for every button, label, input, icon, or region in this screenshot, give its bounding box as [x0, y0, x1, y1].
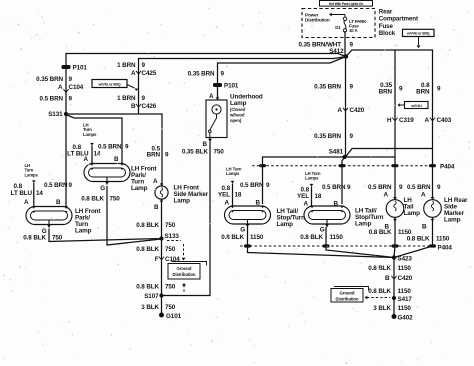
- svg-text:750: 750: [165, 304, 176, 311]
- svg-text:9: 9: [221, 71, 225, 78]
- svg-text:S133: S133: [165, 233, 180, 240]
- svg-text:750: 750: [214, 149, 225, 156]
- svg-text:Lamps: Lamps: [305, 176, 319, 181]
- svg-text:750: 750: [52, 235, 63, 242]
- svg-text:9: 9: [69, 182, 73, 189]
- svg-text:9: 9: [266, 182, 270, 189]
- svg-text:Block: Block: [379, 30, 396, 37]
- svg-text:750: 750: [165, 284, 176, 291]
- svg-text:D1: D1: [335, 25, 341, 30]
- svg-text:B: B: [334, 201, 339, 208]
- svg-text:B: B: [131, 103, 136, 110]
- svg-text:w/V4U or B9Q: w/V4U or B9Q: [406, 32, 430, 36]
- svg-text:9: 9: [142, 62, 146, 69]
- svg-text:A: A: [24, 199, 29, 206]
- svg-text:750: 750: [165, 246, 176, 253]
- svg-text:A: A: [338, 107, 343, 114]
- svg-text:B: B: [256, 200, 261, 207]
- svg-text:open): open): [230, 118, 242, 123]
- svg-text:Lamp: Lamp: [277, 221, 294, 228]
- svg-text:G101: G101: [166, 313, 182, 320]
- svg-text:9: 9: [350, 84, 354, 91]
- svg-text:B: B: [385, 275, 390, 282]
- svg-text:0.8: 0.8: [14, 183, 23, 190]
- svg-text:S423: S423: [398, 256, 413, 263]
- svg-text:Lamp: Lamp: [131, 185, 148, 192]
- svg-text:1150: 1150: [436, 236, 450, 243]
- svg-text:A: A: [209, 93, 214, 100]
- svg-text:1150: 1150: [250, 234, 264, 241]
- svg-text:0.8 BLK: 0.8 BLK: [368, 288, 391, 295]
- svg-text:C319: C319: [399, 117, 414, 124]
- svg-text:P404: P404: [438, 245, 453, 252]
- svg-text:G402: G402: [398, 315, 414, 322]
- svg-text:1 BRN: 1 BRN: [117, 62, 136, 69]
- svg-text:0.5 BRN: 0.5 BRN: [368, 184, 392, 191]
- svg-text:0.8 BLK: 0.8 BLK: [368, 265, 391, 272]
- svg-text:1150: 1150: [398, 288, 412, 295]
- svg-text:A: A: [304, 201, 309, 208]
- svg-text:750: 750: [110, 196, 121, 203]
- svg-text:B: B: [154, 204, 159, 211]
- svg-text:0.5 BRN: 0.5 BRN: [240, 182, 264, 189]
- svg-text:9: 9: [142, 95, 146, 102]
- svg-text:0.5 BRN: 0.5 BRN: [322, 184, 346, 191]
- svg-text:Lamps: Lamps: [83, 132, 97, 137]
- svg-text:Lamp: Lamp: [174, 198, 191, 205]
- svg-text:Hot With Park Lights On: Hot With Park Lights On: [329, 2, 364, 6]
- svg-text:C403: C403: [437, 117, 452, 124]
- svg-text:P404: P404: [440, 164, 455, 171]
- svg-text:Lamps: Lamps: [25, 172, 39, 177]
- svg-text:H: H: [387, 117, 392, 124]
- svg-text:9: 9: [350, 42, 354, 49]
- svg-text:0.8 BLK: 0.8 BLK: [369, 229, 392, 236]
- svg-text:S131: S131: [48, 111, 63, 118]
- svg-text:A: A: [421, 192, 426, 199]
- svg-text:Lamps: Lamps: [226, 171, 240, 176]
- svg-text:0.8 BLK: 0.8 BLK: [221, 234, 244, 241]
- svg-text:1 BRN: 1 BRN: [117, 95, 136, 102]
- svg-text:0.5 BRN: 0.5 BRN: [98, 144, 122, 151]
- svg-text:P101: P101: [73, 65, 88, 72]
- svg-text:Distribution: Distribution: [336, 296, 359, 301]
- svg-text:Lamp: Lamp: [404, 210, 421, 217]
- svg-text:S417: S417: [398, 296, 413, 303]
- svg-text:9: 9: [437, 184, 441, 191]
- svg-text:C420: C420: [350, 107, 365, 114]
- svg-text:B: B: [203, 141, 208, 148]
- svg-text:750: 750: [165, 222, 176, 229]
- svg-text:YEL: YEL: [218, 192, 230, 199]
- svg-text:(Closed: (Closed: [230, 107, 246, 112]
- svg-text:C425: C425: [142, 70, 157, 77]
- svg-text:A: A: [225, 200, 230, 207]
- svg-text:A: A: [425, 117, 430, 124]
- svg-text:LT BLU: LT BLU: [11, 190, 33, 197]
- svg-text:C420: C420: [398, 275, 413, 282]
- svg-text:F: F: [155, 256, 159, 263]
- svg-text:18: 18: [315, 193, 322, 200]
- svg-text:0.8 BLK: 0.8 BLK: [81, 196, 104, 203]
- svg-text:0.5 BRN: 0.5 BRN: [407, 184, 431, 191]
- svg-text:Ground: Ground: [340, 291, 355, 296]
- svg-text:C426: C426: [142, 103, 157, 110]
- svg-text:9: 9: [350, 133, 354, 140]
- svg-text:A: A: [84, 156, 89, 163]
- svg-text:Lamp: Lamp: [355, 221, 372, 228]
- svg-text:9: 9: [437, 86, 441, 93]
- svg-text:BRN: BRN: [379, 89, 393, 96]
- svg-text:G: G: [320, 227, 325, 234]
- svg-text:0.5 BRN: 0.5 BRN: [40, 96, 64, 103]
- svg-text:18: 18: [235, 192, 242, 199]
- svg-text:BRN: BRN: [416, 89, 430, 96]
- svg-text:Rear: Rear: [379, 9, 393, 16]
- svg-text:BRN: BRN: [147, 152, 161, 159]
- svg-text:0.35 BRN: 0.35 BRN: [36, 76, 63, 83]
- svg-text:1150: 1150: [330, 234, 344, 241]
- svg-text:Lamp: Lamp: [230, 100, 247, 107]
- svg-text:G: G: [240, 227, 245, 234]
- svg-text:0.8 BLK: 0.8 BLK: [407, 236, 430, 243]
- svg-text:C104: C104: [69, 84, 84, 91]
- svg-text:Lamp: Lamp: [75, 228, 92, 235]
- svg-text:14: 14: [36, 190, 43, 197]
- svg-text:9: 9: [69, 76, 73, 83]
- svg-text:Fuse: Fuse: [379, 23, 394, 30]
- svg-text:S107: S107: [144, 293, 159, 300]
- svg-text:0.8 BLK: 0.8 BLK: [136, 284, 159, 291]
- svg-text:P101: P101: [224, 83, 239, 90]
- svg-text:Distribution: Distribution: [173, 272, 196, 277]
- svg-text:0.35 BRN: 0.35 BRN: [314, 133, 341, 140]
- svg-text:9: 9: [399, 184, 403, 191]
- svg-text:S412: S412: [329, 48, 344, 55]
- svg-text:10 A: 10 A: [349, 28, 358, 33]
- svg-text:YEL: YEL: [297, 193, 309, 200]
- svg-text:Lamp: Lamp: [444, 217, 461, 224]
- svg-text:0.8 BLK: 0.8 BLK: [300, 234, 323, 241]
- svg-text:0.8 BLK: 0.8 BLK: [23, 235, 46, 242]
- svg-text:w/V4U: w/V4U: [410, 104, 422, 108]
- svg-text:B: B: [56, 199, 61, 206]
- svg-text:A: A: [58, 84, 63, 91]
- svg-text:0.35 BRN: 0.35 BRN: [314, 84, 341, 91]
- svg-text:0.8 BLK: 0.8 BLK: [136, 222, 159, 229]
- svg-text:0.35 BRN: 0.35 BRN: [188, 71, 215, 78]
- svg-text:9: 9: [399, 86, 403, 93]
- svg-text:9: 9: [125, 144, 129, 151]
- svg-text:1150: 1150: [398, 305, 412, 312]
- svg-text:1150: 1150: [398, 265, 412, 272]
- svg-text:0.35 BLK: 0.35 BLK: [182, 149, 209, 156]
- svg-text:S481: S481: [329, 149, 344, 156]
- svg-text:w/V42 or B9Q: w/V42 or B9Q: [98, 83, 121, 87]
- svg-text:A: A: [384, 192, 389, 199]
- svg-text:B: B: [114, 156, 119, 163]
- svg-text:9: 9: [165, 152, 169, 159]
- svg-text:0.8 BLK: 0.8 BLK: [136, 246, 159, 253]
- svg-text:Ground: Ground: [177, 266, 192, 271]
- svg-text:0.5 BRN: 0.5 BRN: [44, 182, 68, 189]
- svg-text:9: 9: [69, 96, 73, 103]
- svg-text:w/hood: w/hood: [229, 112, 245, 117]
- svg-text:A: A: [153, 178, 158, 185]
- svg-text:A: A: [131, 70, 136, 77]
- svg-text:Distribution: Distribution: [305, 17, 330, 22]
- svg-text:G: G: [100, 185, 105, 192]
- svg-text:Compartment: Compartment: [379, 16, 418, 23]
